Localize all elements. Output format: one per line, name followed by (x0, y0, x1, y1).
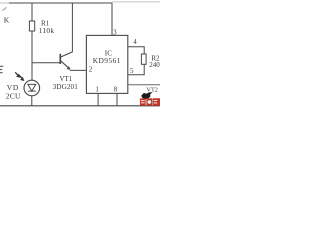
svg-text:K: K (4, 16, 10, 25)
svg-text:240k: 240k (149, 61, 160, 69)
svg-text:5: 5 (130, 67, 134, 75)
wire collector to +V rail (71, 3, 73, 52)
light arrow 2 (19, 75, 22, 78)
wire base node to VT1 (32, 62, 60, 64)
svg-text:1: 1 (95, 86, 99, 94)
pin wire to VT2 (cut off at right edge) (128, 84, 160, 86)
emitter arrowhead (67, 66, 71, 70)
switch K lever (faint, cut off at left edge) (2, 7, 6, 10)
svg-text:2: 2 (89, 65, 93, 73)
photodiode VD (24, 80, 40, 106)
svg-text:VT1: VT1 (59, 75, 72, 83)
light arrow 1 (15, 72, 24, 81)
svg-text:8: 8 (114, 86, 118, 94)
transistor VT1 (60, 52, 72, 69)
resistor R1 (29, 3, 34, 80)
pin 1 wire (97, 93, 99, 105)
pin 4 wire to R2 (128, 47, 144, 54)
wire R2 bottom to pin 5 (128, 64, 144, 75)
watermark black glyph (141, 92, 152, 99)
wire faint rail continuation to right edge (112, 1, 160, 3)
pin 3 wire (111, 3, 113, 35)
battery plates (cut off at left edge) (0, 66, 3, 72)
wire emitter to IC pin 2 (70, 69, 87, 71)
pin 8 wire (116, 93, 118, 105)
bottom ground rail (0, 105, 160, 107)
svg-text:2CU: 2CU (6, 91, 21, 100)
resistor R2 (141, 54, 146, 64)
IC U1 KD9561 box (86, 35, 127, 93)
svg-text:3DG201: 3DG201 (53, 83, 79, 91)
wire top +V rail (fades in at left) (0, 2, 10, 4)
svg-text:4: 4 (133, 38, 137, 46)
svg-text:3: 3 (113, 28, 117, 36)
svg-text:KD9561: KD9561 (93, 56, 121, 65)
watermark red glyphs (140, 98, 160, 106)
svg-text:110k: 110k (39, 26, 55, 35)
